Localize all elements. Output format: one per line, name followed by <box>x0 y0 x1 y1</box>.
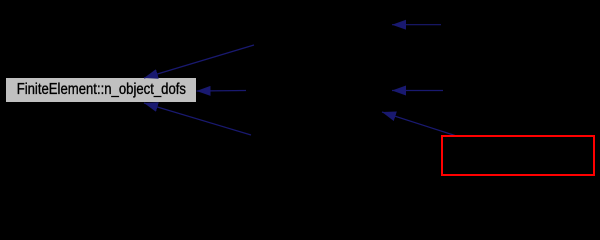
svg-text:FiniteElement::n_object_dofs: FiniteElement::n_object_dofs <box>17 81 187 98</box>
wire caller1 -> n_object_dofs <box>144 45 254 78</box>
wire caller2 -> n_object_dofs <box>197 90 247 93</box>
wire caller5 -> caller2 <box>392 90 443 92</box>
wire caller3 -> n_object_dofs <box>144 103 251 135</box>
truncated node (red) <box>442 136 594 175</box>
wire caller4 -> caller1 <box>392 24 441 26</box>
node FiniteElement::n_object_dofs <box>6 78 196 102</box>
wire truncated node -> caller2 <box>382 112 455 136</box>
